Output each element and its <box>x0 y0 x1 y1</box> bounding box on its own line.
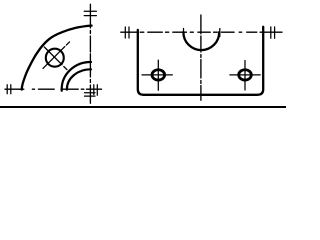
plate outline <box>138 27 263 95</box>
left hole <box>152 70 165 80</box>
diagonal centerline B (slash) <box>43 42 70 69</box>
right hole centerlines <box>230 61 260 91</box>
semicircular notch <box>183 32 219 50</box>
left hole centerlines <box>142 60 172 90</box>
vertical centerline <box>200 15 202 100</box>
horizontal centerline <box>5 88 102 90</box>
centerline end ticks (top pair) <box>84 11 96 15</box>
inner concentric arc (outer of the two small arcs) <box>62 62 91 91</box>
centerline end ticks (bottom pair) <box>85 93 96 96</box>
vertical centerline <box>89 4 91 103</box>
centerline end ticks (left pair) <box>125 27 129 38</box>
horizontal centerline <box>121 31 282 33</box>
outer quarter arc <box>22 26 92 90</box>
small circle (hole) <box>46 49 64 67</box>
inner concentric arc (inner of the two small arcs) <box>67 69 91 89</box>
diagonal centerline A (backslash) <box>44 47 67 70</box>
centerline end ticks (right pair) <box>271 27 275 38</box>
centerline end ticks (right pair) <box>94 85 98 95</box>
centerline end ticks (left pair) <box>7 85 11 94</box>
right hole <box>239 70 252 80</box>
notch end ticks <box>184 29 220 37</box>
